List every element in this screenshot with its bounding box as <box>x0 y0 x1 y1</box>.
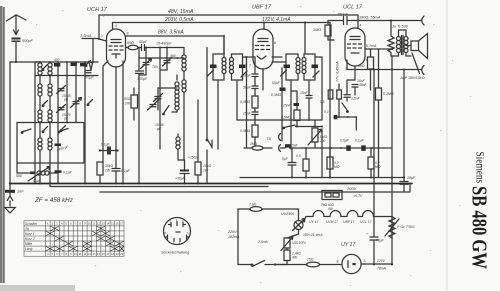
wire IF1 secondary top to UBF17 grid <box>243 56 254 58</box>
svg-text:500: 500 <box>16 174 22 178</box>
junction field top <box>390 20 392 22</box>
B+ bus 200V <box>240 177 404 179</box>
wire UBF anode side to IF2 <box>272 57 286 62</box>
svg-text:7: 7 <box>249 64 251 68</box>
junction IF1 feed <box>223 42 225 44</box>
svg-text:0,1μF: 0,1μF <box>355 139 365 143</box>
trimmer 490 <box>163 48 172 71</box>
capacitor 10nF IF2 <box>306 96 312 121</box>
wire UCL17 pin4 riser <box>357 15 359 29</box>
wire IF1 feed top <box>223 36 225 55</box>
resistor bias a <box>328 90 333 99</box>
junction bottom line x374 <box>373 69 375 71</box>
switch S2b in box <box>59 129 68 132</box>
svg-text:UCL 17: UCL 17 <box>343 5 363 11</box>
switch tone <box>342 103 348 111</box>
capacitor 300pF osc <box>136 48 144 184</box>
wire 0.2Ma stubs <box>329 148 331 178</box>
wire UCL anode to output <box>346 60 348 70</box>
wire UCH17 pin4 riser <box>112 23 114 30</box>
svg-text:3: 3 <box>364 259 366 263</box>
return line y191 <box>100 184 410 193</box>
capacitor 50pF AGC <box>252 74 258 77</box>
wire column x76 <box>75 62 77 123</box>
antenna arrow head <box>14 30 19 35</box>
variable coil 500 permeability tuner <box>37 171 49 175</box>
coil L8 secondary coupling <box>48 138 52 184</box>
switch mains <box>252 261 265 267</box>
switch osc column <box>207 139 212 147</box>
coil L10 oscillator tank lower <box>182 80 186 160</box>
wire resistor link row left <box>244 147 272 149</box>
barretter internal resistors <box>325 193 339 197</box>
svg-text:78mA: 78mA <box>377 267 387 271</box>
wire to earth <box>9 184 11 207</box>
wire 0.5M AF stubs <box>305 148 307 178</box>
wire earth branch down <box>9 62 11 184</box>
wire chain to PGv <box>379 216 392 218</box>
tube UCL17 anode <box>350 37 360 40</box>
wire 203V drop x330 <box>329 23 331 178</box>
wire anode row y47.5 <box>126 47 185 49</box>
svg-text:1: 1 <box>101 34 103 38</box>
junction b+ bus x392 <box>391 177 393 179</box>
svg-text:0,5: 0,5 <box>320 100 325 104</box>
capacitor 15nF <box>252 112 258 115</box>
svg-text:1,5nF: 1,5nF <box>351 97 361 101</box>
junction second rail dots <box>39 75 41 77</box>
wire mains riser x238 <box>237 209 239 265</box>
wire grid return x322 <box>321 105 323 120</box>
wire UCL cathode down <box>347 66 355 92</box>
scan edge gray strip bottom left <box>0 285 75 291</box>
junction earth lead on chassis bus <box>9 182 11 184</box>
resistor 50 ohm 2W <box>131 95 138 108</box>
trimmer 15-45pF <box>57 86 66 94</box>
wire UZL chain stub <box>275 248 287 265</box>
junction AF row x341 <box>340 147 342 149</box>
svg-text:Kurz 2: Kurz 2 <box>25 237 35 241</box>
svg-text:4W: 4W <box>292 256 298 260</box>
coil L5 secondary long-wave <box>48 62 52 84</box>
wire column x67 <box>66 62 68 123</box>
switch S2a in box <box>22 129 31 132</box>
svg-text:18V≈21,4mA: 18V≈21,4mA <box>303 233 323 237</box>
tube UBF17 diodes <box>257 56 266 59</box>
capacitor blob diode load <box>280 88 286 91</box>
svg-text:50pF: 50pF <box>139 40 148 44</box>
junction AF row x331 <box>330 147 332 149</box>
resistor 0.5M ohm <box>252 125 258 137</box>
svg-text:ZF = 458 kHz: ZF = 458 kHz <box>34 197 74 204</box>
wire column x58 <box>57 62 59 163</box>
wire mains bottom <box>238 264 252 266</box>
coil L3 antenna short-wave <box>38 110 42 138</box>
variable coil core blob <box>30 172 35 175</box>
wire 30uF stubs <box>184 160 186 184</box>
junction AF row x306 <box>305 147 307 149</box>
leader line speaker label <box>412 53 420 74</box>
speaker cone <box>419 34 428 59</box>
coil L12 IF wave trap <box>176 134 180 160</box>
switch TA <box>284 125 295 128</box>
wire 30k to bus <box>99 175 101 184</box>
wire speaker leads <box>391 46 411 57</box>
wire heater line to lamp <box>262 209 299 221</box>
lamp UVZ500 <box>294 221 303 230</box>
svg-text:0,3MΩ: 0,3MΩ <box>271 93 282 97</box>
wire column x85 <box>84 62 86 184</box>
svg-text:8: 8 <box>127 32 129 36</box>
wire 0.5M to return <box>254 137 256 146</box>
speaker magnet <box>411 41 419 51</box>
svg-text:150pF: 150pF <box>337 13 348 17</box>
wire diode out x282 lower <box>281 120 283 141</box>
svg-text:UCL 17: UCL 17 <box>360 220 372 224</box>
svg-text:P Gv 730/1: P Gv 730/1 <box>397 225 415 229</box>
coil L2 antenna medium-wave <box>38 84 42 110</box>
svg-text:4: 4 <box>360 24 362 28</box>
wire switch to junction <box>265 264 307 266</box>
transformer Tr output secondary <box>404 37 408 53</box>
lamp dimmer arrow <box>293 219 306 231</box>
junction x309 <box>308 119 310 121</box>
svg-text:0,1μF: 0,1μF <box>121 169 131 173</box>
resistor 0.3M ohm <box>252 96 258 108</box>
capacitor 400pF tuner top blob <box>54 63 60 67</box>
svg-text:65Ω: 65Ω <box>127 41 134 45</box>
svg-text:28μF: 28μF <box>406 176 416 180</box>
variable capacitor gang osc <box>141 48 152 76</box>
resistor 0.2M b <box>368 157 374 169</box>
switch S1a <box>43 65 48 70</box>
capacitor 5uF coupling <box>288 148 296 178</box>
wire UCH17 pin side down x103 <box>103 61 108 162</box>
resistor 76/90 ohm barretter box <box>322 191 342 200</box>
svg-text:100: 100 <box>320 139 326 143</box>
resistor 0.1M vertical UCL <box>376 88 382 100</box>
coil L7 secondary short-wave <box>48 110 52 138</box>
IF2 trimmer arrows <box>281 70 320 77</box>
junction tuner top rail dots <box>39 61 41 63</box>
IF transformer 2 primary loop <box>286 54 298 80</box>
junction gang tap <box>145 47 147 49</box>
svg-text:15-490pF: 15-490pF <box>156 42 172 46</box>
wire 1k stubs <box>370 49 372 90</box>
junction shield box corners <box>39 122 41 124</box>
svg-text:Lang: Lang <box>25 247 33 251</box>
svg-text:≈6,7V: ≈6,7V <box>353 194 363 198</box>
switch S1e top right <box>86 61 91 66</box>
svg-text:+: + <box>366 232 368 236</box>
junction x207 top <box>206 47 208 49</box>
junction bottom line x392 <box>391 69 393 71</box>
svg-text:400: 400 <box>54 58 60 62</box>
page fold line right <box>446 0 448 291</box>
wire heater line left <box>238 208 250 210</box>
svg-text:UBF 17: UBF 17 <box>343 220 355 224</box>
wire riser x392 <box>391 56 393 265</box>
capacitor 300uF padder <box>85 71 91 73</box>
wire column x198 <box>197 100 199 162</box>
wire IF2 primary bottom <box>290 80 292 149</box>
svg-text:MΩ: MΩ <box>334 165 340 169</box>
svg-text:40nF: 40nF <box>359 83 368 87</box>
trimmer 15-45 osc <box>154 88 178 110</box>
lamp cross <box>295 222 301 228</box>
junction osc rail dots <box>145 57 147 59</box>
capacitor 0.1uF cathode link <box>107 147 111 155</box>
svg-text:UCH 17: UCH 17 <box>326 220 338 224</box>
svg-text:Schalter: Schalter <box>25 222 38 226</box>
junction 203V/UBF17 <box>263 22 265 24</box>
tube UBF17 grids <box>256 46 270 50</box>
wire chain lower <box>254 108 256 125</box>
tube UCH17 grids <box>109 46 123 50</box>
wire antenna lead down <box>15 42 17 62</box>
svg-text:MΩ: MΩ <box>375 165 381 169</box>
IF1 primary coil <box>222 58 226 74</box>
switch S1c <box>43 127 48 132</box>
tube UBF17 anode <box>258 39 268 42</box>
svg-text:2,5mA: 2,5mA <box>257 240 269 244</box>
wire bias b stubs <box>338 84 340 117</box>
UY17 internal anode dot <box>353 263 356 265</box>
coil L6 secondary medium-wave <box>48 84 52 110</box>
capacitor 50uF cathode <box>252 86 258 89</box>
junction mains/chain <box>274 263 276 265</box>
table contact dots <box>49 228 122 250</box>
wire box left down <box>16 163 18 173</box>
svg-text:1nF: 1nF <box>17 190 24 194</box>
switch S1b <box>43 101 48 106</box>
wire antenna branch to tuner <box>10 61 40 63</box>
variable capacitor tuning arrow <box>71 98 82 108</box>
resistor 2.4k 4W <box>284 250 290 261</box>
junction IF2 feed 203V line <box>304 22 306 24</box>
resistor field coil zigzag <box>388 21 394 57</box>
tube UCH17 cathode <box>112 54 120 58</box>
tube UCL17 cathode <box>351 52 359 54</box>
svg-text:48V, 15mA: 48V, 15mA <box>168 9 194 15</box>
wire cathode link y150.5 <box>100 150 118 152</box>
svg-text:Kurz 1: Kurz 1 <box>25 232 35 236</box>
coil L11 feedback <box>172 75 179 112</box>
wire tuner left edge <box>34 62 36 184</box>
wire 48V supply bus <box>99 14 358 16</box>
IF1 secondary capacitor <box>239 65 246 69</box>
svg-text:50Ω: 50Ω <box>124 97 131 101</box>
svg-text:0,1μF: 0,1μF <box>63 171 73 175</box>
tube UCL17 grids <box>348 44 362 48</box>
potentiometer 1M volume <box>312 128 318 142</box>
resistor 1M link <box>252 146 263 150</box>
svg-text:50pF: 50pF <box>243 74 252 78</box>
capacitor band blob 3 <box>80 63 86 66</box>
ground symbol <box>5 208 15 214</box>
tube socket diagram circle <box>164 218 191 245</box>
capacitor 15nF blob <box>294 103 300 106</box>
wire tone link y117 <box>334 116 356 118</box>
wire x356 link down <box>355 117 357 130</box>
earth arrow symbol <box>7 196 13 201</box>
connector hook bottom speaker lead <box>422 66 424 75</box>
svg-text:5μF: 5μF <box>282 157 289 161</box>
IF1 trimmer arrow primary <box>208 70 214 76</box>
svg-text:50pF: 50pF <box>272 81 281 85</box>
svg-text:Ju P 180/4,5kΩ: Ju P 180/4,5kΩ <box>399 76 425 80</box>
svg-text:78μF: 78μF <box>376 239 385 243</box>
wire 0.2Mb stubs <box>370 148 372 178</box>
svg-text:10kΩ: 10kΩ <box>203 164 211 168</box>
resistor 30k ohm 2W <box>97 162 103 175</box>
svg-text:0,5: 0,5 <box>296 154 301 158</box>
wire IF1 secondary bottom drop <box>236 80 238 120</box>
svg-text:UY 17: UY 17 <box>309 220 318 224</box>
wire UCL screen row <box>365 48 392 50</box>
junction antenna/tuner <box>15 61 17 63</box>
capacitor 490pF blob <box>55 144 62 147</box>
svg-text:Siemens: Siemens <box>473 152 486 184</box>
svg-text:220V: 220V <box>376 259 386 263</box>
switch flag top right <box>89 62 93 71</box>
svg-text:50μF: 50μF <box>243 86 252 90</box>
capacitor band blob 2 <box>71 63 77 66</box>
IF1 trimmer arrow secondary <box>241 71 247 77</box>
junction switch right <box>296 126 298 128</box>
capacitor +30uF cathode <box>180 170 189 172</box>
IF1 secondary coil <box>230 58 234 74</box>
tube UBF17 envelope <box>253 29 273 69</box>
coil L1 antenna long-wave <box>38 62 42 84</box>
svg-text:8: 8 <box>337 260 339 264</box>
svg-text:700: 700 <box>152 65 158 69</box>
wire hook to cap <box>281 147 286 149</box>
junction AF row x372 <box>371 147 373 149</box>
resistor 7.6 ohm <box>250 207 262 212</box>
capacitor box tone link <box>334 115 338 119</box>
svg-text:1kΩ: 1kΩ <box>358 64 365 68</box>
wire 3,5mA lead <box>82 38 99 40</box>
wire diode load column x282 <box>281 68 283 120</box>
svg-text:5,7mA: 5,7mA <box>366 44 377 48</box>
UZL arrow <box>281 237 293 251</box>
capacitor 1nF earth blob <box>5 190 15 193</box>
svg-text:500pF: 500pF <box>22 39 33 43</box>
wire tuner second rail <box>35 75 98 77</box>
junction rectifier x392 <box>391 263 393 265</box>
junction x282 <box>281 119 283 121</box>
junction B+ bus x404 <box>403 176 405 178</box>
wire chain x255 <box>254 57 256 96</box>
junction rectifier x374 <box>373 263 375 265</box>
svg-text:77V, 0,45mA: 77V, 0,45mA <box>336 61 340 82</box>
antenna symbol <box>7 15 27 21</box>
wire IF1 primary bottom drop <box>217 80 219 149</box>
svg-text:7,6Ω: 7,6Ω <box>249 203 257 207</box>
svg-text:15nF: 15nF <box>243 112 252 116</box>
IF2 secondary coil <box>302 58 306 74</box>
pot arrow <box>308 129 322 145</box>
wire output B+ line <box>328 20 421 22</box>
svg-text:15nF: 15nF <box>283 104 292 108</box>
svg-text:SB 480 GW: SB 480 GW <box>467 186 490 269</box>
svg-text:Sockelschaltung: Sockelschaltung <box>161 250 190 255</box>
svg-text:88V, 3,5mA: 88V, 3,5mA <box>158 30 184 36</box>
junction AVC top <box>246 56 248 58</box>
resistor P Gv 730/1 zigzag <box>389 217 395 239</box>
wire x237 lower <box>237 119 322 121</box>
wire UBF17 anode riser <box>263 23 265 30</box>
wire column x160 <box>159 48 161 150</box>
capacitor 50pF series <box>142 45 145 51</box>
svg-text:0,1: 0,1 <box>324 110 329 114</box>
resistor 1M ohm grid UCL17 <box>327 21 329 26</box>
wire 0.1uF stubs <box>57 163 59 184</box>
wire B+ riser x374 <box>373 70 375 265</box>
tube UCH17 envelope <box>107 29 126 67</box>
wire 88V right drop to IF1 <box>223 36 225 55</box>
wire transformer secondary to speaker <box>406 53 411 57</box>
coil L9 oscillator tank <box>182 48 186 81</box>
svg-text:8: 8 <box>274 41 276 45</box>
junction tone link dots <box>338 116 340 118</box>
svg-text:203V, 0,5mA: 203V, 0,5mA <box>164 17 194 23</box>
wire TA to pot <box>296 126 323 128</box>
resistor bias b <box>337 90 342 99</box>
resistor 10k ohm 1W <box>195 162 201 175</box>
svg-text:300pF: 300pF <box>137 77 148 81</box>
wire grid feed into tube <box>99 39 107 41</box>
resistor 0.5M diode load <box>294 110 300 121</box>
capacitor 5nF blob <box>285 144 291 147</box>
capacitor 28uF electrolytic <box>400 181 408 183</box>
IF transformer 1 secondary loop <box>232 54 243 80</box>
socket pin marks <box>165 222 189 242</box>
resistor 0.2M a <box>327 157 333 169</box>
svg-text:2W: 2W <box>124 102 131 106</box>
svg-text:0,5μF: 0,5μF <box>340 139 350 143</box>
shield box bottom coil group <box>17 123 84 164</box>
capacitor 78uF electrolytic <box>370 236 378 238</box>
svg-text:4: 4 <box>115 24 117 28</box>
scan edge dark bar left <box>0 6 3 283</box>
junction trimmer tap <box>166 47 168 49</box>
svg-text:TA: TA <box>267 137 272 141</box>
wire thin return y186.5 <box>50 184 268 187</box>
svg-text:0,3MΩ: 0,3MΩ <box>240 100 251 104</box>
svg-text:0,5MΩ: 0,5MΩ <box>281 116 291 120</box>
svg-text:5nF: 5nF <box>292 143 299 147</box>
variable resistor UZL10PL <box>284 238 290 248</box>
wire pot stubs <box>314 120 316 148</box>
variable cap padder osc <box>148 100 159 110</box>
wire AVC column x246.5 <box>246 57 248 148</box>
svg-text:UY 17: UY 17 <box>341 242 356 248</box>
table contact X marks <box>46 226 125 251</box>
IF2 secondary loop <box>304 54 315 80</box>
capacitor 0.5uF series <box>346 145 350 151</box>
tube UY17 rectifier envelope <box>342 254 361 273</box>
trimmer 15-20pF <box>57 105 66 113</box>
arrow PGv <box>385 219 399 236</box>
connector hook top speaker lead <box>422 16 424 25</box>
svg-text:490: 490 <box>170 54 176 58</box>
wire column x93 feed to UCH17 <box>92 39 94 63</box>
svg-text:1W: 1W <box>203 169 209 173</box>
coil L4 antenna coupling <box>38 138 42 184</box>
svg-text:Mitte: Mitte <box>25 242 32 246</box>
